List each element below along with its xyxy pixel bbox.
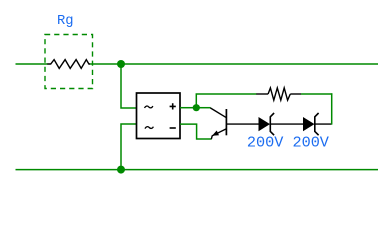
transistor Q1 emitter lead with arrow (211, 129, 226, 139)
wire bridge minus output to transistor emitter (180, 124, 211, 139)
wire right corner vertical (331, 93, 333, 124)
wire from top junction down to bridge input (121, 64, 137, 108)
zener diode D2 triangle (303, 117, 315, 131)
zener diode D2 cathode (315, 113, 319, 135)
zener diode D1 triangle (259, 117, 271, 131)
node top junction dot (117, 60, 125, 68)
transistor Q1 base lead / diode branch line (226, 123, 258, 125)
wire after second diode (315, 123, 332, 125)
dashed enclosure box around Rg (45, 35, 93, 89)
wire between diodes (270, 123, 303, 125)
node plus output junction dot (193, 104, 200, 111)
wire from plus node up and right to resistor branch (196, 94, 256, 110)
wire from plus node to transistor collector (196, 107, 210, 109)
svg-text:Rg: Rg (57, 14, 74, 29)
bridge rectifier U1 body (137, 93, 181, 139)
zener diode D1 cathode (270, 113, 274, 135)
bridge minus symbol (170, 127, 176, 129)
wire bridge plus output to node (180, 107, 195, 109)
svg-text:200V 200V: 200V 200V (247, 134, 330, 152)
wire bottom rail (16, 169, 378, 171)
resistor R black lead right (290, 93, 301, 95)
wire from bottom junction up to bridge input (121, 124, 137, 170)
bridge AC symbol top ~ (145, 106, 153, 108)
resistor Rg (47, 60, 90, 69)
transistor Q1 base bar (225, 109, 227, 135)
resistor R zigzag (268, 88, 290, 100)
transistor Q1 collector lead (210, 108, 226, 118)
wire top rail left segment (16, 63, 48, 65)
bridge plus symbol (170, 103, 176, 109)
wire resistor to right corner (301, 93, 332, 95)
wire top rail right segment (90, 63, 378, 65)
node bottom junction dot (117, 166, 125, 174)
resistor R top branch black lead left (256, 93, 268, 95)
bridge AC symbol bottom ~ (145, 127, 153, 129)
